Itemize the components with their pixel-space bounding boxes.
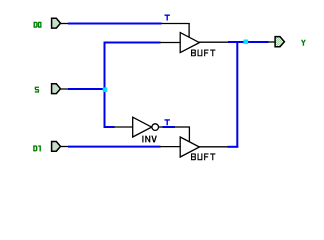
wire U3 input pin lead (black) [160,146,181,148]
wire Y net lower horizontal (blue) [228,146,239,148]
label D1 [33,145,41,151]
wire U2 output stub (black) [159,126,163,128]
wire D1 pad stub (black) [61,146,69,148]
input port S [52,84,61,94]
wire S net to U1 input (blue) [104,42,161,44]
wire U3 output lead (black) [199,146,228,148]
wire Y pad stub (black) [268,41,276,43]
label INV (U2) [142,136,157,143]
wire U3 T-pin lead horizontal (black) [175,126,190,128]
output port Y [275,37,284,47]
inverter U2 (INV) [133,117,152,137]
junction dot on Y net [244,40,249,44]
wire U1 output lead (black) [199,41,228,43]
wire inverted-select net (blue) [163,126,175,128]
wire U1 T-pin lead vertical (black) [188,23,190,38]
wire S net vertical (blue) [104,43,106,129]
label Y [301,40,306,46]
wire U2 input pin lead (black) [114,126,133,128]
label S [35,87,40,93]
wire U1 input pin lead (black) [160,42,181,44]
input port D0 [52,18,61,28]
pin label T (U1 enable) [165,15,170,21]
input port D1 [52,142,61,152]
junction dot on S net [103,87,108,92]
label BUFT (U1) [191,50,215,57]
wire U3 T-pin lead vertical (black) [188,127,190,142]
inverter U2 bubble [152,124,159,131]
wire U1 T-pin lead horizontal (black) [162,23,190,25]
wire S net horizontal (blue) [68,88,106,90]
wire D0 net (blue) [68,23,162,25]
wire D0 pad stub (black) [61,23,69,25]
label BUFT (U3) [191,153,215,160]
wire Y net (blue) [228,41,269,43]
pin label T (U3 enable) [165,119,170,125]
tri-state buffer U3 (BUFT) [180,137,199,157]
wire Y net vertical riser (blue) [236,42,238,148]
wire S pad stub (black) [61,88,69,90]
label D0 [34,22,42,28]
tri-state buffer U1 (BUFT) [180,33,199,53]
wire S net to inverter input (blue) [104,126,115,128]
wire D1 net (blue) [68,146,161,148]
